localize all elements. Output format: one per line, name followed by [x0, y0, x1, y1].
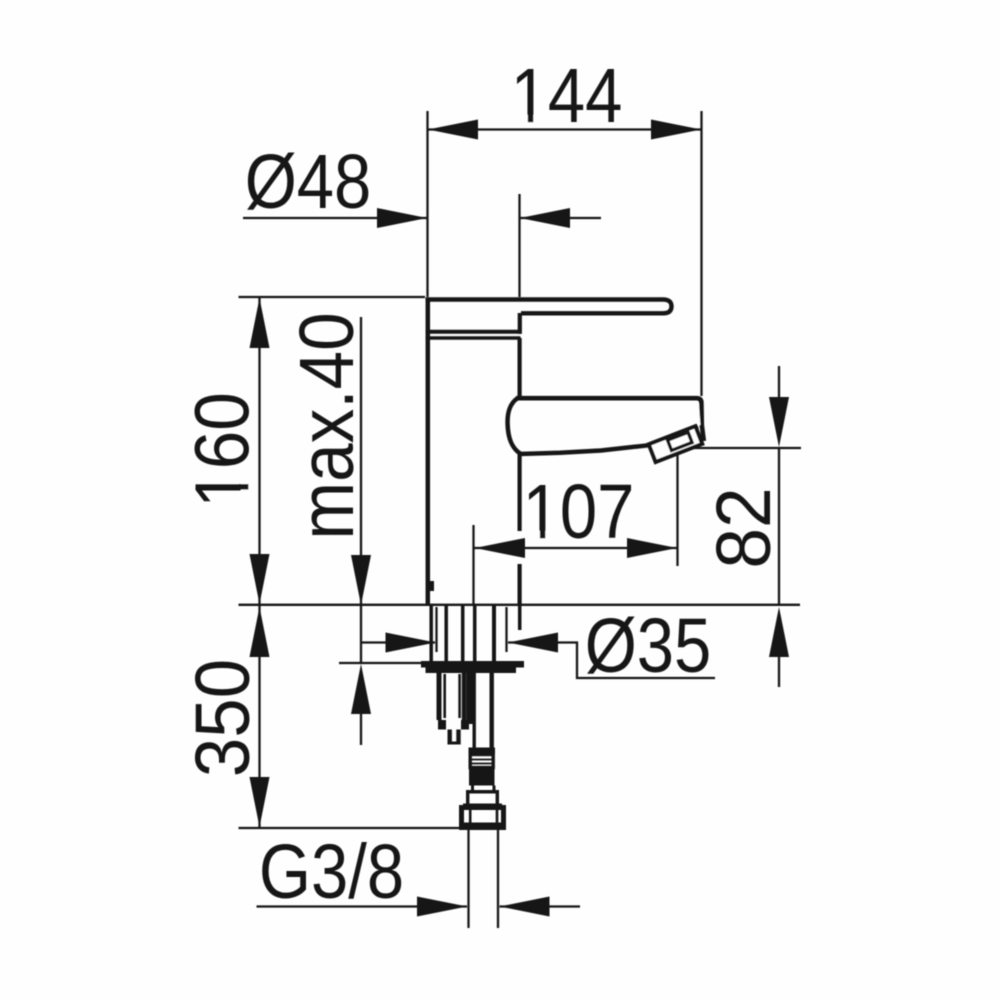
dimension label 82 — [700, 487, 786, 568]
handle base block — [426, 298, 522, 605]
dimension label Ø35 — [585, 604, 712, 689]
dimension Ø48 line — [243, 208, 601, 228]
supply hose — [474, 673, 492, 748]
connector nut G3/8 — [459, 808, 506, 831]
spout — [508, 398, 704, 454]
faucet outline — [426, 298, 704, 605]
dimension Ø48 extension line right — [518, 194, 520, 297]
connector skirt — [463, 790, 502, 808]
dimension 82 extension line top — [686, 447, 801, 449]
dimension label 350 — [179, 659, 265, 777]
dimension label G3/8 — [259, 830, 404, 915]
dimension 350 extension line bottom — [239, 827, 460, 829]
shank tube bundle — [431, 606, 520, 661]
svg-text:144: 144 — [511, 54, 623, 139]
threaded rod end — [448, 730, 461, 745]
svg-text:82: 82 — [700, 487, 786, 568]
aerator — [649, 426, 702, 462]
svg-text:G3/8: G3/8 — [259, 830, 404, 915]
dimension G3/8 extension line right — [497, 830, 499, 928]
dimension 144 line — [428, 120, 702, 140]
dimension label 107 — [523, 470, 635, 555]
dimension 107 extension line right — [676, 453, 678, 566]
dimension 144 extension line left — [426, 111, 428, 297]
svg-text:Ø48: Ø48 — [245, 140, 372, 225]
dimension 144 extension line right — [700, 111, 702, 396]
dark column — [466, 670, 473, 724]
dimension 107 line — [475, 538, 678, 558]
dimension 160 line — [250, 297, 270, 605]
svg-text:Ø35: Ø35 — [585, 604, 712, 689]
dimension label 160 — [179, 392, 265, 508]
hose thread band — [470, 755, 493, 768]
dimension max.40 leader line — [351, 317, 371, 605]
dimension label max.40 — [284, 312, 370, 539]
dimension Ø35 extension line right — [505, 607, 507, 652]
dimension Ø35 extension line left — [435, 607, 437, 652]
hose black band — [469, 768, 495, 786]
dimension max.40 bottom reference line — [339, 662, 421, 664]
hose white gap — [473, 786, 495, 791]
svg-text:107: 107 — [523, 470, 635, 555]
hose collar — [469, 748, 496, 755]
dimension G3/8 line — [257, 897, 581, 917]
dimension 107 extension line left — [472, 525, 474, 604]
mounting flange — [421, 661, 524, 673]
svg-text:160: 160 — [179, 392, 265, 508]
glyph foot patches to mimic Arial-style numeral one — [239, 114, 558, 539]
cartridge seam line — [426, 336, 521, 340]
dimension 82 line — [769, 366, 789, 687]
dimension Ø35 line and leader — [361, 633, 715, 679]
handle lever — [426, 300, 672, 314]
dimension 350 line — [250, 605, 270, 828]
stud nut — [438, 720, 469, 730]
dimension label 144 — [511, 54, 623, 139]
dimension label Ø48 — [245, 140, 372, 225]
set screw detail on body — [427, 581, 434, 591]
body right edge — [517, 338, 521, 604]
under counter assembly — [421, 606, 524, 830]
dimension G3/8 extension line left — [467, 830, 469, 928]
svg-text:350: 350 — [179, 659, 265, 777]
svg-text:max.40: max.40 — [284, 312, 370, 539]
dimension max.40 lower line — [351, 606, 371, 745]
mounting stud — [439, 673, 464, 720]
dimension 160 extension line top — [239, 296, 426, 298]
counter top line — [239, 604, 801, 606]
